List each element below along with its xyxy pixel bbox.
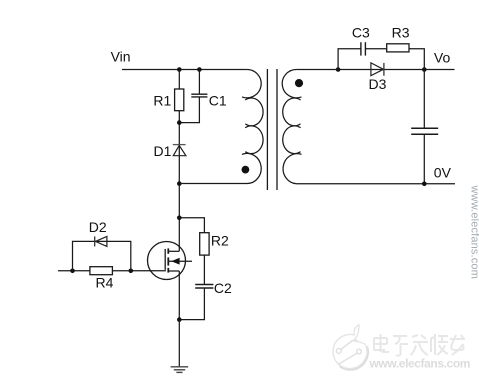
wire D2 bypass loop [73,241,131,270]
svg-text:C1: C1 [209,92,227,108]
svg-text:R3: R3 [392,25,410,41]
svg-text:www.elecfans.com: www.elecfans.com [369,357,471,371]
wire Vin rail [122,69,247,71]
node 0V junction [422,182,427,187]
svg-text:R4: R4 [96,275,114,291]
watermark Chinese characters [374,334,465,356]
transformer T1 primary polarity dot [242,166,250,174]
transformer T1 secondary winding [282,69,455,183]
svg-text:D1: D1 [154,143,172,159]
wire to ground [178,320,180,367]
wire main vertical (rail to MOSFET drain) [178,70,180,252]
svg-text:Vo: Vo [434,50,451,66]
ground [171,367,189,373]
svg-text:0V: 0V [434,164,452,180]
transformer T1 secondary polarity dot [295,79,303,87]
svg-text:www.elecfans.com: www.elecfans.com [469,185,479,280]
svg-text:R1: R1 [153,92,171,108]
node gate-left junction [70,269,75,274]
node snubber left junction [336,67,341,72]
node primary-bottom junction [177,181,182,186]
svg-text:Vin: Vin [111,49,131,65]
svg-text:D3: D3 [369,76,387,92]
transformer T1 primary winding [180,69,264,183]
resistor R3 [387,44,409,52]
watermark logo circle [333,325,368,370]
diode D1 [173,145,186,156]
svg-text:C2: C2 [214,280,232,296]
capacitor C1 [179,70,207,123]
svg-text:C3: C3 [352,25,370,41]
capacitor Cout [411,70,438,184]
wire gate lead [58,270,166,272]
resistor R2 [200,233,209,255]
resistor R1 [175,89,184,111]
node Vo junction [422,67,427,72]
transformer T1 core [267,69,277,190]
transistor Q1 MOSFET [148,242,193,320]
svg-text:D2: D2 [89,219,107,235]
node drain/R2 junction [177,216,182,221]
node source-bottom junction [177,317,182,322]
svg-text:R2: R2 [211,233,229,249]
diode D3 [371,63,384,76]
capacitor C3 [361,42,366,55]
node rail/C1 junction [197,67,202,72]
wire R2/C2 branch [179,218,204,320]
wire secondary top lead [297,69,455,71]
capacitor C2 [195,285,213,289]
node R1/C1 bottom junction [177,120,182,125]
resistor R4 [90,267,113,275]
diode D2 [95,236,107,246]
node rail/R1 junction [177,67,182,72]
node gate-right junction [129,269,134,274]
wire snubber loop [338,49,424,70]
